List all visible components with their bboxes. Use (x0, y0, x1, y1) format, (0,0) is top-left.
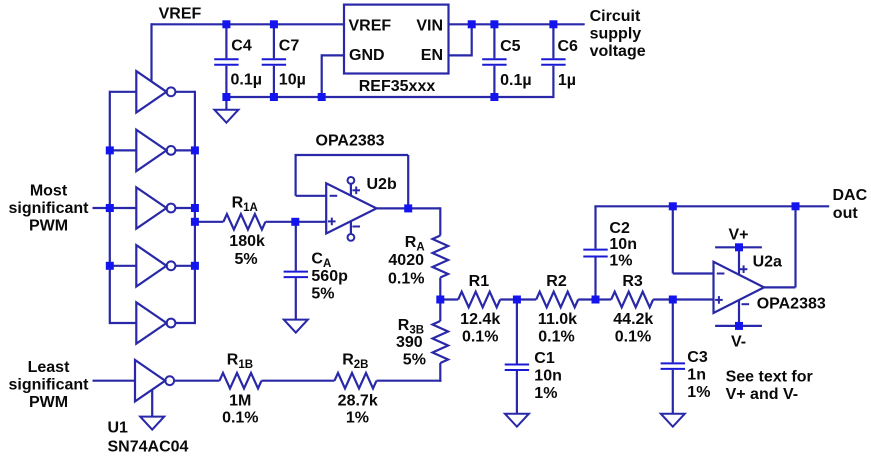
sign U2a V- (742, 303, 750, 305)
svg-text:C4: C4 (231, 38, 252, 55)
value RA 4020 (388, 252, 424, 269)
label C2 (609, 220, 630, 237)
junction bus/C4 (222, 93, 230, 101)
resistor R2 (517, 292, 596, 308)
ground at C4 (214, 97, 238, 123)
junction output bus c (191, 204, 199, 212)
svg-text:10n: 10n (609, 236, 637, 253)
svg-text:See text for: See text for (726, 369, 813, 386)
svg-text:1µ: 1µ (558, 72, 576, 89)
label DAC out (833, 187, 868, 222)
label C3 (687, 349, 708, 366)
svg-text:5%: 5% (234, 251, 257, 268)
svg-text:PWM: PWM (29, 394, 68, 411)
value R1A 180k (229, 233, 265, 250)
svg-text:significant: significant (8, 376, 89, 393)
wire VREF rail (152, 23, 345, 25)
label CA (311, 250, 331, 270)
svg-text:GND: GND (349, 47, 385, 64)
inverter U1 inverter b (110, 130, 195, 171)
junction V- (735, 322, 743, 330)
svg-text:0.1µ: 0.1µ (231, 72, 262, 89)
svg-text:U2a: U2a (753, 254, 782, 271)
net label VREF (159, 6, 202, 23)
svg-text:Most: Most (30, 182, 68, 199)
wire VIN rail (449, 23, 585, 25)
svg-text:EN: EN (421, 47, 443, 64)
label R1B (227, 351, 253, 371)
label U2b (367, 176, 397, 193)
label C6 (558, 38, 579, 55)
capacitor C6 (541, 24, 565, 98)
tolerance R1B 0.1% (222, 410, 258, 427)
svg-text:5%: 5% (403, 352, 426, 369)
pin label GND (349, 47, 385, 64)
wire inverter input bus (109, 91, 111, 324)
wire EN to VIN (449, 24, 472, 56)
svg-text:44.2k: 44.2k (613, 311, 653, 328)
junction input bus b (106, 146, 114, 154)
label Circuit supply voltage (590, 8, 646, 60)
label R3 (622, 273, 643, 290)
junction R1/R2/C1 (513, 296, 521, 304)
svg-text:4020: 4020 (388, 252, 424, 269)
value C1 10n (534, 368, 562, 385)
wire ground bus (226, 96, 553, 98)
label R3B (398, 317, 424, 337)
resistor R1A (195, 214, 295, 230)
svg-text:voltage: voltage (590, 43, 646, 60)
label OPA2383 U2a (757, 296, 826, 313)
svg-text:C1: C1 (534, 350, 555, 367)
svg-text:V+ and V-: V+ and V- (726, 386, 798, 403)
label See text (726, 369, 813, 403)
svg-text:C3: C3 (687, 349, 708, 366)
svg-text:1M: 1M (229, 392, 251, 409)
value C5 0.1u (500, 72, 531, 89)
tolerance C1 1% (534, 385, 557, 402)
tolerance C2 1% (609, 252, 632, 269)
svg-text:OPA2383: OPA2383 (757, 296, 826, 313)
svg-text:VIN: VIN (416, 17, 443, 34)
label REF35xxx (359, 78, 436, 95)
svg-text:V-: V- (731, 333, 746, 350)
label C1 (534, 350, 555, 367)
svg-text:12.4k: 12.4k (460, 311, 500, 328)
value C3 1n (687, 367, 706, 384)
wire VREF drop to U1 supply (150, 23, 152, 80)
label V- (731, 333, 746, 350)
label C4 (231, 38, 252, 55)
power V- bar (715, 300, 762, 326)
inverter U1 inverter e (110, 302, 195, 343)
voltage reference U REF35xxx box (344, 5, 449, 74)
junction R1A/CA (291, 218, 299, 226)
junction VIN/C6 (549, 20, 557, 28)
svg-text:390: 390 (396, 334, 423, 351)
junction bus/C5 (490, 93, 498, 101)
pin U2b V+ stub (348, 177, 355, 196)
wire RA to node (439, 278, 441, 300)
label V+ (728, 227, 748, 244)
sign U2a minus input (717, 273, 725, 275)
junction DAC/U2a out (792, 202, 800, 210)
sign U2b minus input (330, 195, 338, 197)
tolerance R2 0.1% (538, 329, 574, 346)
value R3 44.2k (613, 311, 653, 328)
op-amp U2a triangle (714, 262, 765, 313)
label C7 (279, 38, 300, 55)
junction input bus c (106, 204, 114, 212)
label Most significant PWM (8, 182, 89, 234)
junction VREF/C7 (270, 20, 278, 28)
svg-text:VREF: VREF (159, 6, 202, 23)
label R1A (232, 195, 258, 215)
svg-text:1%: 1% (687, 384, 710, 401)
svg-text:out: out (833, 205, 859, 222)
junction VIN/C5 (490, 20, 498, 28)
svg-text:0.1%: 0.1% (615, 329, 651, 346)
resistor RA (433, 236, 449, 278)
wire DAC out rail (594, 205, 829, 207)
label OPA2383 U2b (316, 132, 385, 149)
sign U2b plus input (328, 218, 336, 226)
capacitor C5 (482, 24, 506, 97)
svg-text:V+: V+ (728, 227, 748, 244)
svg-text:SN74AC04: SN74AC04 (108, 439, 189, 456)
tolerance R3 0.1% (615, 329, 651, 346)
label SN74AC04 (108, 439, 189, 456)
svg-text:significant: significant (8, 200, 89, 217)
svg-text:28.7k: 28.7k (338, 392, 378, 409)
svg-text:Least: Least (28, 359, 70, 376)
wire U2b feedback (295, 155, 409, 208)
tolerance R3B 5% (403, 352, 426, 369)
svg-text:560p: 560p (311, 268, 348, 285)
junction R2/R3/C2 (592, 296, 600, 304)
wire U2b output (377, 207, 441, 209)
junction VREF/C4 (222, 20, 230, 28)
value CA 560p (311, 268, 348, 285)
label R2 (546, 273, 567, 290)
wire MSB input (93, 207, 110, 209)
value R1 12.4k (460, 311, 500, 328)
junction output bus d (191, 262, 199, 270)
label C5 (500, 38, 521, 55)
wire U2b out corner (439, 207, 441, 235)
svg-text:supply: supply (590, 26, 642, 43)
value C2 10n (609, 236, 637, 253)
wire R1A to U2b + (295, 221, 326, 223)
svg-text:1%: 1% (609, 252, 632, 269)
resistor R3B (433, 300, 449, 382)
pin label VIN (416, 17, 443, 34)
value R2 11.0k (538, 311, 577, 328)
tolerance C3 1% (687, 384, 710, 401)
sign U2a V+ (740, 265, 748, 273)
inverter U1 inverter a (110, 71, 195, 112)
svg-text:1%: 1% (346, 410, 369, 427)
value R3B 390 (396, 334, 423, 351)
svg-text:R2: R2 (546, 273, 567, 290)
svg-text:10µ: 10µ (279, 72, 306, 89)
resistor R1 (440, 292, 517, 308)
junction output bus tap (191, 218, 199, 226)
svg-text:C2: C2 (609, 220, 630, 237)
junction node A (436, 296, 444, 304)
svg-text:Circuit: Circuit (590, 8, 641, 25)
junction V+ (735, 243, 743, 251)
resistor R3 (596, 292, 673, 308)
power V+ bar (715, 247, 762, 274)
svg-text:U1: U1 (108, 419, 129, 436)
capacitor C4 (214, 24, 238, 97)
svg-text:0.1%: 0.1% (462, 329, 498, 346)
sign U2b V+ (352, 187, 360, 195)
svg-text:OPA2383: OPA2383 (316, 132, 385, 149)
value R1B 1M (229, 392, 251, 409)
sign U2b V- (352, 226, 360, 228)
label U2a (753, 254, 782, 271)
pin U2b V- stub (348, 221, 355, 241)
svg-text:C5: C5 (500, 38, 521, 55)
resistor R1B (220, 373, 262, 389)
wire node to U2a + (673, 298, 714, 300)
svg-text:180k: 180k (229, 233, 265, 250)
wire R1B to R2B (262, 380, 335, 382)
label R2B (342, 351, 368, 371)
ground at CA (284, 320, 308, 333)
junction VIN/EN (468, 20, 476, 28)
tolerance RA 0.1% (388, 271, 424, 288)
svg-text:0.1%: 0.1% (222, 410, 258, 427)
svg-text:C7: C7 (279, 38, 300, 55)
capacitor CA (284, 222, 308, 320)
op-amp U2b triangle (326, 183, 376, 233)
ground at C3 (661, 414, 685, 427)
pin label VREF (349, 17, 392, 34)
capacitor C3 (661, 300, 685, 414)
junction bus/GND pin (318, 93, 326, 101)
svg-text:0.1µ: 0.1µ (500, 72, 531, 89)
label Least significant PWM (8, 359, 89, 411)
inverter U1 f (135, 360, 220, 401)
svg-text:11.0k: 11.0k (538, 311, 577, 328)
ground at C1 (505, 414, 529, 427)
svg-text:R1: R1 (469, 273, 490, 290)
ground at U1 (140, 390, 164, 430)
svg-text:DAC: DAC (833, 187, 868, 204)
wire inverter output bus (194, 91, 196, 324)
tolerance R1A 5% (234, 251, 257, 268)
wire GND pin (322, 54, 344, 97)
junction R3/C3 node (669, 296, 677, 304)
value C6 1u (558, 72, 576, 89)
resistor R2B (335, 373, 377, 389)
value R2B 28.7k (338, 392, 378, 409)
junction bus/C7 (270, 93, 278, 101)
svg-text:5%: 5% (311, 285, 334, 302)
label R1 (469, 273, 490, 290)
svg-text:1%: 1% (534, 385, 557, 402)
junction DAC/feedback (669, 202, 677, 210)
tolerance R1 0.1% (462, 329, 498, 346)
wire LSB input (93, 380, 136, 382)
value C4 0.1u (231, 72, 262, 89)
tolerance CA 5% (311, 285, 334, 302)
svg-text:U2b: U2b (367, 176, 397, 193)
capacitor C7 (262, 24, 286, 97)
tolerance R2B 1% (346, 410, 369, 427)
sign U2a plus input (715, 296, 723, 304)
label RA (405, 234, 425, 254)
inverter U1 inverter c (110, 187, 195, 228)
svg-text:10n: 10n (534, 368, 562, 385)
svg-text:1n: 1n (687, 367, 706, 384)
svg-text:R3: R3 (622, 273, 643, 290)
label U1 (108, 419, 129, 436)
svg-text:C6: C6 (558, 38, 579, 55)
svg-text:REF35xxx: REF35xxx (359, 78, 436, 95)
wire R2B to R3B (377, 380, 442, 382)
svg-text:VREF: VREF (349, 17, 392, 34)
value C7 10u (279, 72, 306, 89)
svg-text:0.1%: 0.1% (388, 271, 424, 288)
capacitor C1 (505, 300, 529, 414)
junction U2b output (404, 204, 412, 212)
svg-text:PWM: PWM (29, 217, 68, 234)
wire U2a feedback (673, 206, 714, 273)
capacitor C2 (583, 206, 607, 299)
junction input bus d (106, 262, 114, 270)
svg-text:0.1%: 0.1% (538, 329, 574, 346)
wire U2a output (764, 206, 796, 287)
junction output bus b (191, 146, 199, 154)
inverter U1 inverter d (110, 245, 195, 286)
pin label EN (421, 47, 443, 64)
